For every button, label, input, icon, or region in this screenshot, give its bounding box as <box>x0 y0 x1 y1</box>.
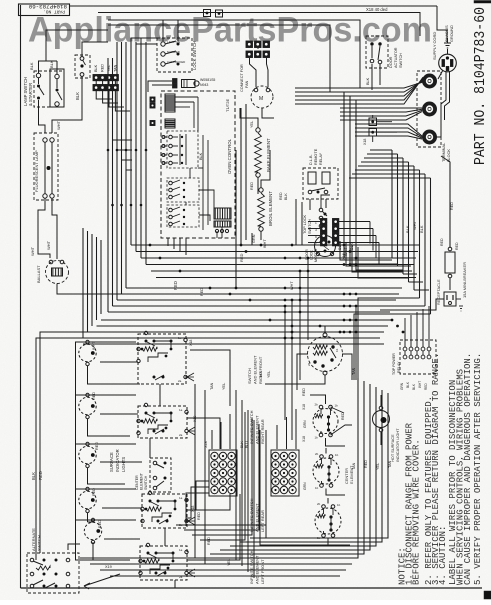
wire mid bundle A <box>131 244 420 246</box>
svg-text:1b: 1b <box>335 348 339 352</box>
svg-text:LIGHTS: LIGHTS <box>121 457 126 472</box>
svg-text:REMOTE: REMOTE <box>314 148 318 165</box>
wire indicator L1 top <box>76 341 137 343</box>
svg-text:RED: RED <box>450 202 454 210</box>
wires grid left exits <box>186 481 209 510</box>
border left <box>20 5 22 588</box>
svg-text:RED: RED <box>92 392 96 400</box>
wire top long horizontals <box>108 20 360 88</box>
svg-text:MOTOR: MOTOR <box>314 248 318 262</box>
svg-text:4. CAUTION:: 4. CAUTION: <box>438 526 448 585</box>
oven control box <box>161 91 235 238</box>
wires fan-in terminal L1 <box>295 82 423 88</box>
wires fan-in terminal N <box>340 107 422 109</box>
wire oven light switch up <box>82 42 108 57</box>
wire bake bottom <box>257 177 259 186</box>
svg-text:WHT: WHT <box>343 247 348 256</box>
svg-text:RED: RED <box>95 442 99 450</box>
svg-text:WHT: WHT <box>56 120 61 130</box>
wire indicator feeds <box>87 310 89 332</box>
svg-text:SWITCH: SWITCH <box>399 53 403 68</box>
wire cluster top elbows <box>131 38 157 42</box>
terminal block box <box>417 71 441 147</box>
wire right bus elbows bottom <box>392 257 405 259</box>
wire mid bundle B <box>126 287 402 289</box>
svg-text:X19: X19 <box>105 565 112 569</box>
svg-text:2a: 2a <box>179 433 183 437</box>
svg-text:SWITCH: SWITCH <box>144 475 148 490</box>
ballast <box>46 261 69 284</box>
hot surface indicator light <box>373 411 390 428</box>
infinite switch left front box <box>140 546 187 580</box>
terminal grid left <box>209 450 237 496</box>
wire bottom left risers <box>194 384 196 558</box>
wire alternate top <box>68 544 80 550</box>
relay K1 oven control <box>167 131 198 168</box>
svg-text:RIGHT REAR: RIGHT REAR <box>260 419 265 444</box>
svg-text:PART NO. 8104P783-60: PART NO. 8104P783-60 <box>472 7 489 165</box>
svg-text:ELEMENT: ELEMENT <box>140 472 144 490</box>
svg-text:WHT: WHT <box>30 246 35 256</box>
terminal strip B oven control <box>165 119 175 128</box>
connector X18 square A <box>369 118 377 126</box>
svg-text:GRN: GRN <box>400 382 404 390</box>
wire latch to buses <box>340 241 392 260</box>
connector fan strip 2 <box>246 51 253 58</box>
svg-text:RELAY: RELAY <box>319 152 323 165</box>
svg-text:INDICATOR: INDICATOR <box>115 449 120 472</box>
infinite switch left rear box <box>142 494 187 528</box>
connector X16 column A <box>321 219 327 225</box>
svg-text:GRN: GRN <box>252 234 256 243</box>
wire receptacle feed up <box>441 156 450 247</box>
svg-text:YEL: YEL <box>227 559 231 566</box>
wire x18 pair <box>372 115 374 118</box>
svg-text:1a: 1a <box>178 336 182 340</box>
wires oven control interior <box>175 96 198 98</box>
wires X16 to buses <box>339 221 370 223</box>
svg-text:CHASSIS: CHASSIS <box>445 25 449 42</box>
svg-text:RED: RED <box>440 238 444 246</box>
svg-text:ACTUATOR: ACTUATOR <box>394 47 398 68</box>
svg-text:CAL LOCKED: CAL LOCKED <box>167 60 185 64</box>
wire center-right vertical blk <box>344 92 392 258</box>
element right rear circle <box>313 409 338 434</box>
svg-text:SUPPLY CORD: SUPPLY CORD <box>432 32 437 60</box>
svg-text:M: M <box>259 96 263 102</box>
wire indicator L1 bottom <box>87 366 89 375</box>
wire left bus red <box>39 345 41 552</box>
transformer oven control <box>214 208 231 219</box>
wire mid bundle C <box>101 319 392 321</box>
fluorescent lamp box <box>34 133 58 200</box>
svg-text:AND ELEMENT: AND ELEMENT <box>253 355 258 384</box>
alternate switch box <box>27 553 79 593</box>
wire indicator L3 top <box>76 443 137 445</box>
svg-text:AppliancePartsPros.com: AppliancePartsPros.com <box>28 11 432 50</box>
terminal L2 <box>424 131 435 142</box>
svg-text:BLK: BLK <box>49 60 54 68</box>
lamp switch box <box>34 71 64 107</box>
svg-text:GRN: GRN <box>303 420 307 428</box>
bake element <box>256 128 260 132</box>
svg-text:FAN: FAN <box>245 80 249 88</box>
dlb remote relay box <box>303 168 338 199</box>
svg-text:CONNECT FOR: CONNECT FOR <box>240 64 244 92</box>
wire right bus elbows top <box>370 149 392 151</box>
wires oven control bottom exits <box>167 238 169 246</box>
svg-text:BLK: BLK <box>31 472 36 480</box>
svg-text:TAN: TAN <box>259 370 263 378</box>
wire bottom right bus group <box>200 378 358 558</box>
wire element rf <box>324 326 326 333</box>
wire oven light switch down <box>52 77 82 134</box>
wire indicator L4 top <box>76 488 137 490</box>
svg-text:INFINITE SWITCH: INFINITE SWITCH <box>249 550 254 584</box>
connector P3 row 1 <box>93 75 99 81</box>
wire indicator branch lines <box>100 361 138 363</box>
wire cluster lower group <box>82 228 84 338</box>
relay K2 oven control <box>167 178 199 202</box>
svg-text:RED: RED <box>341 412 345 420</box>
wire indicator L3 bottom <box>87 468 89 477</box>
svg-text:SURFACE: SURFACE <box>109 452 114 472</box>
wires element circles <box>310 395 326 404</box>
svg-text:RED: RED <box>92 488 96 496</box>
svg-text:WHT: WHT <box>46 240 51 250</box>
element center circle <box>313 458 339 484</box>
wires X16 left <box>308 221 320 223</box>
svg-text:TAN: TAN <box>352 462 356 470</box>
wires relay pins up <box>404 318 406 347</box>
wire lamp switch top <box>39 61 58 73</box>
connector P3 row 2 <box>93 85 99 91</box>
svg-text:BLK: BLK <box>366 77 370 85</box>
svg-text:RED: RED <box>197 512 201 520</box>
svg-text:2b: 2b <box>307 362 311 366</box>
connector square top A <box>204 10 211 17</box>
svg-text:BALLAST: BALLAST <box>36 265 41 283</box>
svg-text:X18: X18 <box>363 139 367 145</box>
connector fan strip 1 <box>246 41 253 48</box>
junction dots bundles <box>299 270 302 273</box>
svg-text:BROIL ELEMENT: BROIL ELEMENT <box>268 191 273 226</box>
svg-text:2a: 2a <box>178 379 182 383</box>
svg-text:RED: RED <box>424 383 428 390</box>
mini-breaker <box>445 252 455 273</box>
terminal L1 <box>424 75 435 86</box>
svg-text:BLK: BLK <box>412 383 416 390</box>
svg-text:RED: RED <box>173 281 178 290</box>
wires fan connector <box>250 58 257 87</box>
svg-text:BLK: BLK <box>349 242 354 250</box>
wire bake feed verticals <box>240 108 242 245</box>
supply cord plug <box>439 54 457 72</box>
svg-text:1a: 1a <box>179 408 183 412</box>
broil element <box>259 188 263 192</box>
svg-text:& STARTER: & STARTER <box>28 83 33 106</box>
wires between grids vertical <box>200 412 245 540</box>
svg-text:8104P783-60: 8104P783-60 <box>28 3 67 10</box>
svg-text:X18: X18 <box>191 506 195 512</box>
wire switch drops bottom <box>159 384 161 406</box>
wires connector to bus <box>95 81 97 85</box>
svg-text:RED: RED <box>200 288 204 296</box>
inner top line <box>98 13 420 37</box>
wire center-right vertical blk2 <box>356 100 403 270</box>
svg-text:WHT: WHT <box>92 341 96 350</box>
svg-text:NORMED: NORMED <box>167 50 180 54</box>
svg-text:1b: 1b <box>335 453 339 457</box>
svg-text:1b: 1b <box>337 503 341 507</box>
wire receptacle left <box>380 299 444 310</box>
wire indicator L2 bottom <box>87 419 89 428</box>
wires alternate switch top <box>35 553 37 560</box>
wire dlb feeds <box>295 199 297 245</box>
door lock motor <box>315 236 336 257</box>
svg-text:BLK: BLK <box>94 64 98 72</box>
svg-text:WHT: WHT <box>418 381 422 388</box>
svg-text:BLK: BLK <box>337 242 342 250</box>
svg-text:WHT: WHT <box>263 239 267 248</box>
svg-text:5. VERIFY PROPER OPERATION AFT: 5. VERIFY PROPER OPERATION AFTER SERVICI… <box>473 353 483 585</box>
junction dots right bundles <box>343 244 346 247</box>
svg-text:X18: X18 <box>189 340 193 346</box>
connector X18 square B <box>369 129 377 137</box>
svg-text:OVEN CONTROL: OVEN CONTROL <box>227 138 232 174</box>
svg-text:D.L.B.: D.L.B. <box>309 154 313 165</box>
svg-text:GROUND: GROUND <box>450 25 454 42</box>
wire oven sensor <box>148 81 152 92</box>
connector squares outside strip A <box>150 97 155 102</box>
svg-text:DOOR: DOOR <box>389 56 393 68</box>
svg-text:RED: RED <box>302 388 306 396</box>
svg-text:T1/T2E: T1/T2E <box>225 99 230 112</box>
svg-text:TAN: TAN <box>210 382 214 390</box>
infinite switch right rear box <box>138 406 187 438</box>
svg-text:RED: RED <box>38 471 43 480</box>
svg-text:ALTERNATE: ALTERNATE <box>31 528 36 551</box>
wire indicator bypass <box>76 342 111 561</box>
wire mid bundle A extra <box>156 277 416 279</box>
infinite switch right front box <box>138 334 186 384</box>
receptacle symbol <box>444 292 456 306</box>
terminal grid right <box>271 450 299 496</box>
wire bundle verticals right <box>299 271 301 380</box>
wire indicator L5 top <box>76 519 137 521</box>
svg-text:RECEPTACLE: RECEPTACLE <box>436 279 441 305</box>
svg-text:1a: 1a <box>179 496 183 500</box>
wire center-right vertical wht <box>350 96 398 264</box>
svg-text:RIGHT FRONT: RIGHT FRONT <box>258 356 263 384</box>
svg-text:2b: 2b <box>315 452 319 456</box>
svg-text:X18: X18 <box>302 436 306 442</box>
border bottom <box>21 587 483 589</box>
wire broil connections <box>261 150 270 188</box>
wire door actuator down <box>371 64 373 90</box>
svg-text:1a: 1a <box>179 548 183 552</box>
lock switch box <box>157 38 192 72</box>
wire broil return <box>251 233 253 245</box>
svg-text:15A MINI-BREAKER: 15A MINI-BREAKER <box>462 262 467 298</box>
svg-text:RED: RED <box>364 460 368 468</box>
svg-text:BLK: BLK <box>199 152 203 160</box>
corner mark top-right <box>474 1 491 4</box>
svg-text:CENTER: CENTER <box>135 475 139 490</box>
svg-text:1b: 1b <box>315 436 319 440</box>
oven sensor <box>152 80 172 82</box>
svg-text:CAN CAUSE IMPROPER AND DANGERO: CAN CAUSE IMPROPER AND DANGEROUS OPERATI… <box>463 353 473 585</box>
wire hot surface <box>380 395 382 406</box>
svg-text:LEFT REAR: LEFT REAR <box>260 510 265 532</box>
svg-text:RED: RED <box>239 253 244 262</box>
svg-text:LEFT FRONT: LEFT FRONT <box>260 559 265 584</box>
svg-text:INDICATOR LIGHT: INDICATOR LIGHT <box>395 428 400 462</box>
element left rear circle <box>315 508 341 534</box>
indicator light L1 <box>79 344 96 361</box>
wires fan-in terminal L2 <box>355 124 422 136</box>
connector X16 column B <box>333 219 339 225</box>
svg-text:BLK: BLK <box>75 92 80 100</box>
corner mark bottom-right <box>484 591 491 599</box>
wire plug to terminal <box>436 72 446 138</box>
svg-text:TOP POWER: TOP POWER <box>392 353 396 375</box>
connector square top B <box>216 10 223 17</box>
svg-text:BLK: BLK <box>405 225 410 233</box>
wire center bus cluster upper <box>107 58 109 312</box>
svg-text:FLUORESCENT LAMP: FLUORESCENT LAMP <box>34 150 39 192</box>
svg-text:RED: RED <box>98 520 102 528</box>
wire fluorescent to ballast <box>38 198 50 258</box>
svg-text:RED: RED <box>279 192 283 200</box>
wire lamp switch to fluorescent <box>39 100 46 133</box>
svg-text:W0581S5: W0581S5 <box>200 78 215 82</box>
arrow to alternate switch <box>84 574 120 586</box>
wire lock switch up <box>163 20 178 41</box>
indicator light L3 <box>79 446 96 463</box>
wire ballast down <box>57 284 132 295</box>
relay K3 oven control <box>167 205 199 227</box>
wire cluster right stubs <box>113 139 133 141</box>
svg-text:TAN: TAN <box>352 367 356 375</box>
svg-text:BLK: BLK <box>29 62 34 70</box>
svg-text:N943: N943 <box>200 83 208 87</box>
svg-text:SWITCH: SWITCH <box>37 535 42 551</box>
svg-text:BLK: BLK <box>284 193 288 200</box>
junction dots mid intersections <box>284 257 287 260</box>
svg-text:RED: RED <box>101 64 105 72</box>
svg-text:SWITCH: SWITCH <box>247 368 252 384</box>
convection fan motor <box>251 86 273 108</box>
door actuator switch box <box>366 36 388 68</box>
wire indicator L4 bottom <box>87 513 89 522</box>
svg-text:AND ELEMENT: AND ELEMENT <box>255 555 260 584</box>
wire breaker <box>449 243 451 247</box>
wire mid bundle C extra <box>83 343 384 345</box>
terminal strip A oven control <box>165 94 175 112</box>
wire bottom center verticals <box>235 390 237 560</box>
wire indicator L5 bottom <box>92 544 94 553</box>
wire right bus group <box>391 150 393 258</box>
chassis ground symbol <box>444 42 451 44</box>
svg-text:BLK: BLK <box>406 381 410 388</box>
svg-text:YEL: YEL <box>222 383 226 390</box>
wire indicator L2 top <box>76 394 137 396</box>
border top <box>70 5 437 7</box>
wire top feed right <box>437 6 447 42</box>
svg-text:WHT: WHT <box>290 281 294 290</box>
svg-text:RED: RED <box>207 537 211 545</box>
terminal N <box>424 103 435 114</box>
svg-text:2b: 2b <box>317 502 321 506</box>
svg-text:GRN: GRN <box>303 482 307 490</box>
part number box top-left <box>19 4 70 16</box>
svg-text:TAN: TAN <box>388 460 392 468</box>
svg-text:RED: RED <box>250 182 254 190</box>
svg-text:1b: 1b <box>335 404 339 408</box>
oven light switch box <box>75 55 90 78</box>
svg-text:YEL: YEL <box>267 371 271 378</box>
svg-text:YEL: YEL <box>250 121 254 128</box>
svg-text:YEL: YEL <box>376 463 380 470</box>
svg-text:RED: RED <box>455 242 459 250</box>
indicator light L2 <box>79 397 96 414</box>
top power relay box <box>400 340 436 374</box>
center element switch box <box>150 458 171 492</box>
wire bottom bundle <box>80 557 358 559</box>
svg-text:TOP LOCK: TOP LOCK <box>303 214 307 234</box>
wire left bus blk <box>35 345 37 560</box>
wire bake top <box>240 108 258 128</box>
indicator light L4 <box>79 491 96 508</box>
indicator light L5 <box>84 522 101 539</box>
svg-text:X18: X18 <box>302 404 306 410</box>
element right front circle <box>308 337 343 372</box>
top lock switch contacts <box>319 208 323 212</box>
wires element right rear fan <box>331 425 353 435</box>
wire left bus feed elbows <box>36 338 88 345</box>
wires grid top <box>211 430 213 449</box>
svg-text:1b: 1b <box>315 486 319 490</box>
wire bake feed <box>179 155 181 160</box>
svg-text:BEFORE REMOVING WIRE COVER.: BEFORE REMOVING WIRE COVER. <box>412 439 422 585</box>
svg-text:2b: 2b <box>315 403 319 407</box>
junction dots cluster <box>107 149 110 152</box>
